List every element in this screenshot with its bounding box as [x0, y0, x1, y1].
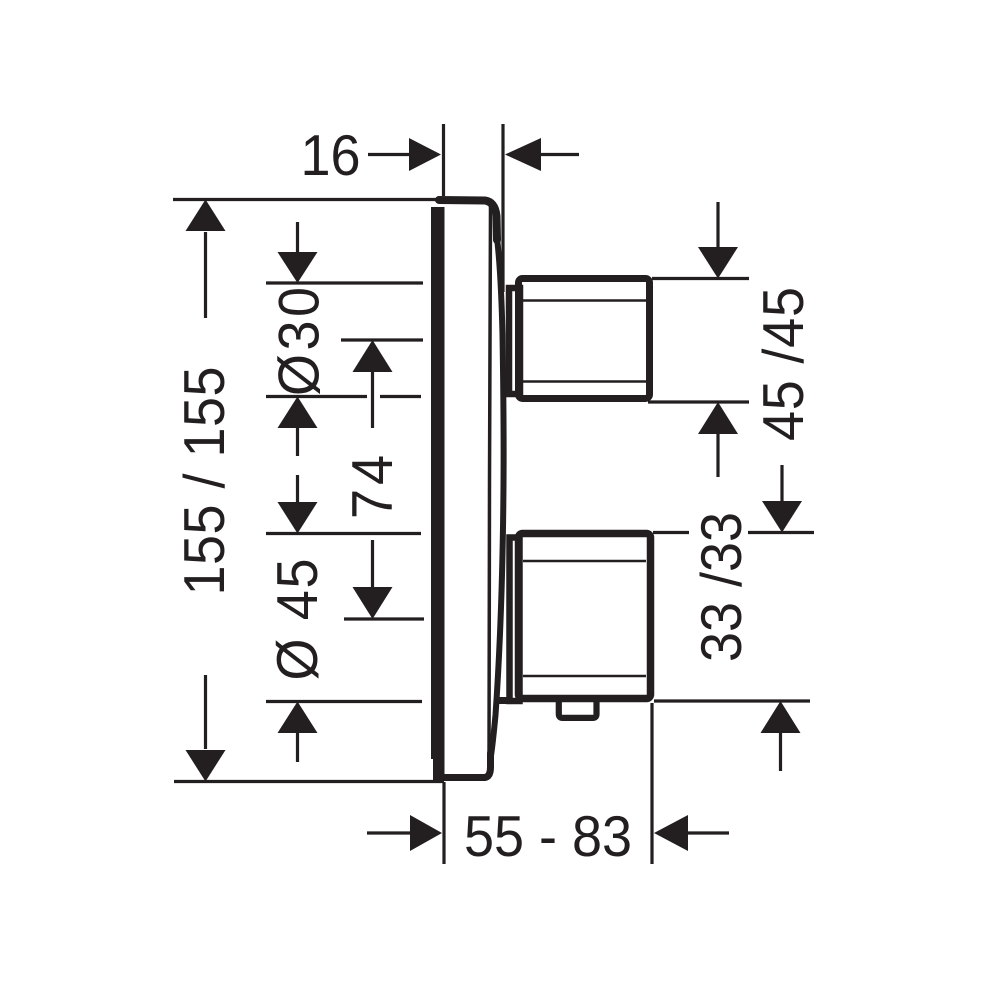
arrow 74 up [353, 340, 393, 372]
dim 55-83 shafts [367, 831, 729, 834]
bottom handle neck [510, 538, 520, 702]
dim 45/45 shafts [716, 202, 719, 477]
bottom handle outer body [519, 534, 651, 699]
arrow 155 down [186, 750, 226, 782]
arrow d30 down [278, 252, 318, 283]
arrow 16 right [409, 138, 441, 171]
arrow 45/45 up [698, 402, 738, 434]
dim 155 shafts [204, 232, 207, 749]
arrow 74 down [353, 587, 393, 619]
top handle neck [509, 288, 520, 394]
arrow 55-83 right [410, 815, 442, 851]
plate side bulge profile [491, 238, 504, 757]
bottom tab under handle [559, 701, 597, 718]
arrow 16 left [505, 138, 541, 171]
svg-text:33 /33: 33 /33 [688, 512, 753, 662]
dim 16 shafts [368, 153, 579, 156]
tick 74 top [341, 338, 423, 341]
dim 33/33 shafts [781, 465, 783, 771]
extension line plate front top [501, 124, 504, 292]
top handle outer body [519, 279, 650, 399]
top handle inner line lower [522, 380, 646, 382]
arrowheads [186, 138, 803, 851]
svg-text:Ø30: Ø30 [266, 287, 331, 396]
svg-text:16: 16 [300, 122, 360, 187]
bottom handle neck foot joining plate [499, 697, 511, 704]
tick 33/33 bottom right [654, 699, 810, 702]
arrow 33/33 up [761, 701, 801, 733]
dim d45 shafts [296, 475, 299, 762]
svg-text:55 - 83: 55 - 83 [464, 803, 632, 868]
dim 74 shafts [371, 372, 374, 588]
tick 45/45 bottom right [648, 400, 749, 403]
tick bottom 155 [174, 780, 444, 783]
tick d45 top [266, 532, 421, 535]
tick d30 bottom [266, 395, 421, 398]
top handle inner line upper [522, 299, 646, 301]
tick d45 bottom [266, 700, 422, 703]
svg-text:155 / 155: 155 / 155 [171, 367, 236, 596]
plate top edge [439, 200, 497, 240]
bottom handle inner line upper [523, 560, 646, 562]
escutcheon plate left (wall-side) edge bar [431, 207, 445, 780]
extension line plate bottom [442, 782, 445, 864]
extension line handle right bottom [650, 703, 653, 864]
arrow d45 down [278, 502, 318, 534]
tick 33/33 top right [653, 531, 814, 534]
tick 74 bottom [344, 617, 424, 620]
svg-text:Ø 45: Ø 45 [264, 559, 329, 681]
dimension thin lines [173, 124, 814, 864]
arrow 55-83 left [654, 815, 688, 851]
extension line plate back top [442, 124, 445, 196]
tick 45/45 top right [652, 277, 749, 280]
arrow d30 up [278, 397, 318, 429]
arrow 155 up [186, 200, 226, 232]
tick top 155 [173, 198, 437, 201]
tick d30 top [266, 281, 423, 284]
svg-text:45 /45: 45 /45 [750, 287, 815, 441]
bottom handle inner line lower [523, 675, 646, 677]
arrow d45 up [278, 702, 318, 734]
dim d30 shafts [296, 222, 299, 456]
plate bottom edge [443, 753, 491, 778]
arrow 33/33 down [762, 501, 802, 533]
arrow 45/45 down [698, 247, 738, 279]
plate front face line [489, 206, 491, 768]
